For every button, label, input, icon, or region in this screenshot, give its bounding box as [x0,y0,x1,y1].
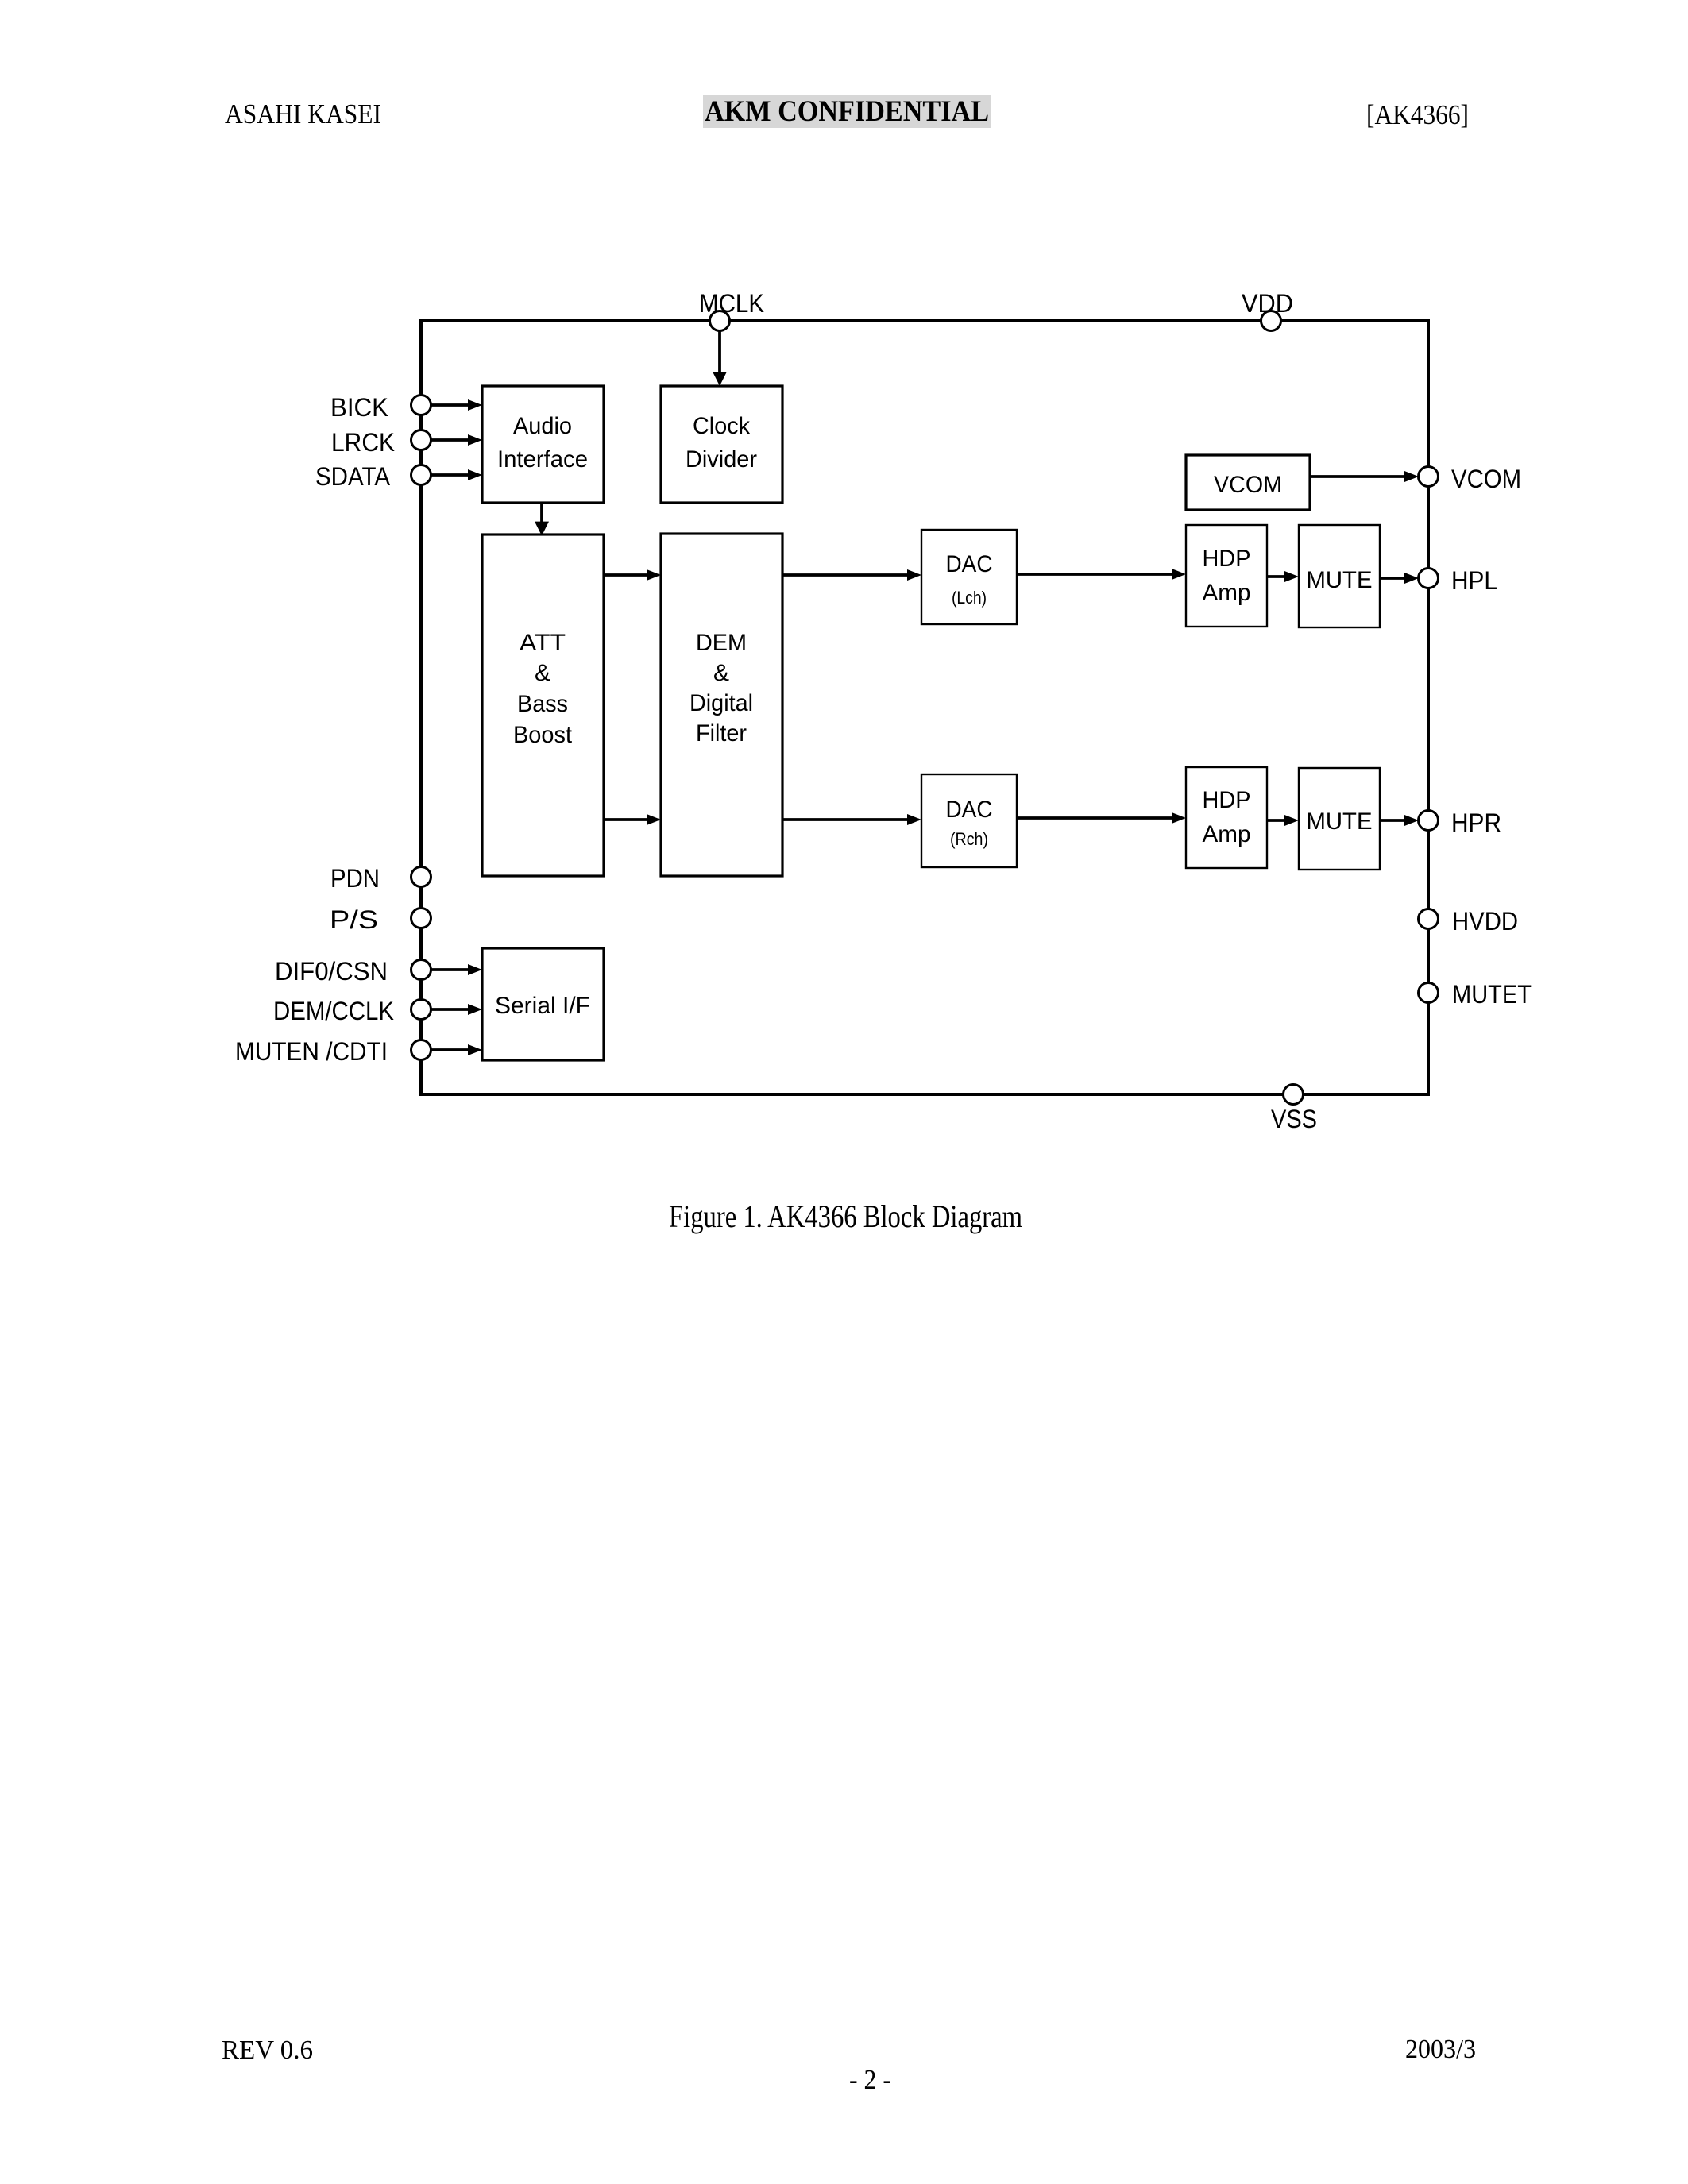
svg-text:2003/3: 2003/3 [1405,2035,1476,2064]
svg-text:BICK: BICK [330,393,388,422]
svg-text:VSS: VSS [1271,1105,1317,1133]
svg-text:- 2 -: - 2 - [849,2064,891,2095]
svg-text:Filter: Filter [696,720,747,747]
svg-text:LRCK: LRCK [331,428,395,457]
svg-text:HDP: HDP [1203,787,1251,813]
svg-text:MCLK: MCLK [699,289,764,318]
svg-text:DEM: DEM [696,630,747,656]
svg-text:(Lch): (Lch) [952,588,987,608]
svg-text:DEM/CCLK: DEM/CCLK [273,997,394,1025]
svg-text:MUTE: MUTE [1307,808,1373,835]
svg-text:HPL: HPL [1451,566,1497,595]
svg-text:PDN: PDN [330,864,380,893]
svg-text:Clock: Clock [693,413,751,439]
svg-text:&: & [535,660,550,686]
svg-text:ATT: ATT [520,630,566,656]
svg-text:&: & [713,660,729,686]
svg-text:Figure 1. AK4366 Block Diagram: Figure 1. AK4366 Block Diagram [669,1198,1022,1234]
svg-text:Serial I/F: Serial I/F [495,993,590,1019]
svg-text:HVDD: HVDD [1452,907,1518,936]
svg-text:DAC: DAC [946,551,993,577]
svg-text:VCOM: VCOM [1214,472,1282,498]
svg-text:[AK4366]: [AK4366] [1366,99,1469,130]
svg-text:ASAHI KASEI: ASAHI KASEI [225,98,381,129]
svg-text:MUTET: MUTET [1452,980,1532,1009]
svg-text:MUTE: MUTE [1307,567,1373,593]
svg-text:VCOM: VCOM [1451,465,1521,493]
svg-text:Audio: Audio [513,413,572,439]
svg-text:Amp: Amp [1203,580,1251,606]
svg-text:DAC: DAC [946,797,993,823]
svg-text:P/S: P/S [330,905,378,934]
svg-text:Interface: Interface [497,446,588,473]
svg-text:Amp: Amp [1203,821,1251,847]
svg-text:Divider: Divider [686,446,757,473]
svg-text:Bass: Bass [517,691,568,717]
svg-text:SDATA: SDATA [315,462,391,491]
svg-text:HDP: HDP [1203,546,1251,572]
svg-text:AKM CONFIDENTIAL: AKM CONFIDENTIAL [705,95,989,128]
svg-text:Boost: Boost [513,722,573,748]
svg-text:(Rch): (Rch) [950,829,988,849]
svg-text:VDD: VDD [1242,289,1293,318]
svg-text:MUTEN /CDTI: MUTEN /CDTI [235,1037,388,1066]
svg-text:REV 0.6: REV 0.6 [222,2035,313,2065]
svg-text:DIF0/CSN: DIF0/CSN [275,957,388,986]
svg-text:Digital: Digital [689,690,753,716]
svg-text:HPR: HPR [1451,808,1501,837]
